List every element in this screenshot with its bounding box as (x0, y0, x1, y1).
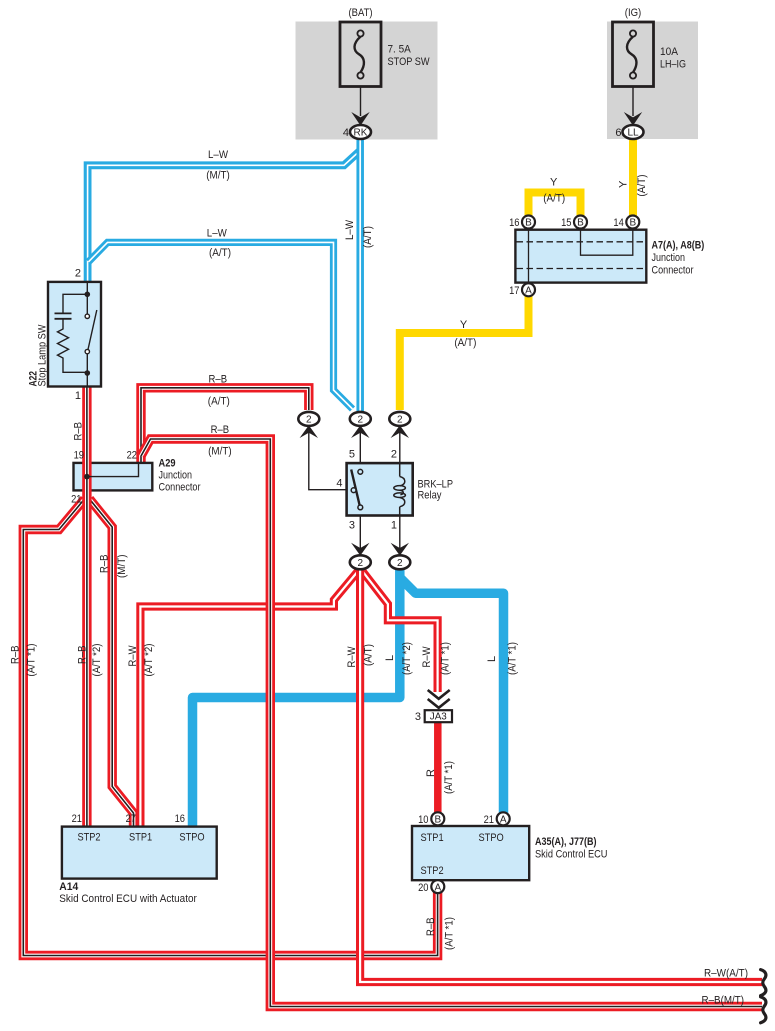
svg-text:JA3: JA3 (430, 712, 447, 723)
svg-text:A: A (434, 882, 441, 893)
continuation brace R-W(A/T) (761, 970, 766, 996)
svg-text:L–W: L–W (344, 219, 356, 240)
svg-text:3: 3 (349, 520, 355, 532)
arrow into middle top oval (351, 425, 369, 438)
svg-text:A29: A29 (159, 458, 176, 470)
svg-text:Connector: Connector (652, 265, 694, 277)
svg-text:2: 2 (358, 415, 364, 426)
svg-text:Relay: Relay (418, 490, 442, 502)
svg-text:2: 2 (397, 415, 403, 426)
svg-text:(A/T *1): (A/T *1) (443, 761, 455, 794)
svg-text:Skid Control ECU: Skid Control ECU (535, 849, 608, 861)
svg-text:STPO: STPO (179, 832, 205, 844)
skid control ECU A35(A) J77(B) (412, 826, 529, 880)
relay BRK-LP (347, 463, 413, 515)
svg-text:L: L (384, 655, 396, 661)
wire fuse F1 to connector RK (360, 87, 362, 117)
connector JA3 pin 3 (415, 710, 452, 723)
svg-text:R–W(A/T): R–W(A/T) (704, 968, 748, 980)
connector oval LL pin 6 (615, 125, 643, 139)
svg-text:R–B: R–B (209, 374, 228, 386)
svg-text:(A/T): (A/T) (362, 226, 374, 248)
svg-text:R–W: R–W (346, 646, 358, 668)
svg-text:STOP SW: STOP SW (388, 56, 431, 68)
svg-text:10A: 10A (660, 46, 679, 58)
svg-text:STP1: STP1 (421, 832, 444, 844)
svg-text:STP1: STP1 (129, 832, 152, 844)
wire R-W (A/T *2) from left bottom relay oval to A14 STP1 (140, 572, 357, 828)
svg-text:(A/T): (A/T) (636, 175, 648, 197)
arrow into bottom right oval (391, 543, 409, 556)
svg-text:1: 1 (75, 390, 81, 402)
svg-text:A: A (500, 815, 507, 826)
svg-text:L: L (486, 656, 498, 662)
wire Y from LL to A7 pin 14B (629, 138, 637, 216)
svg-text:A: A (525, 286, 532, 297)
svg-text:RK: RK (354, 128, 368, 139)
svg-text:R: R (425, 769, 437, 777)
wire Y from A7 pin 17A to relay connector oval (400, 288, 529, 410)
continuation brace R-B(M/T) (761, 997, 766, 1023)
A7 pin circle 16 B (509, 216, 535, 230)
A35 pin circle 10 B (418, 812, 444, 826)
oval 2 bottom left (350, 555, 371, 569)
A7 pin circle 17 A (509, 283, 535, 297)
svg-text:21: 21 (484, 814, 494, 826)
skid control ECU with actuator A14 (62, 827, 217, 879)
wire R-B (A/T *1) from A29 pin 21 to A35 STP2 (23, 499, 437, 956)
svg-text:5: 5 (349, 449, 355, 461)
svg-text:2: 2 (75, 268, 81, 280)
relay thin line pin 5 to middle oval (359, 432, 361, 469)
fuse F1 7.5A STOP SW (340, 22, 381, 87)
svg-text:Y: Y (460, 319, 468, 331)
svg-text:B: B (434, 815, 441, 826)
junction connector A29 box (74, 463, 153, 491)
svg-text:Stop Lamp SW: Stop Lamp SW (37, 324, 49, 387)
wire R-W (A/T *1) from left bottom relay oval to JA3 (363, 572, 438, 693)
svg-text:16: 16 (509, 217, 519, 229)
svg-text:(M/T): (M/T) (206, 170, 230, 182)
svg-text:(A/T *1): (A/T *1) (444, 917, 456, 950)
svg-text:(BAT): (BAT) (349, 7, 373, 19)
svg-text:2: 2 (306, 415, 312, 426)
relay thin line pin 3 down (359, 516, 361, 550)
svg-text:STP2: STP2 (77, 832, 100, 844)
svg-text:21: 21 (71, 494, 81, 506)
svg-text:(A/T): (A/T) (363, 644, 375, 666)
arrow into bottom left oval (351, 543, 369, 556)
arrow into right top oval (391, 425, 409, 438)
wire L-W (A/T) from A22 pin 2 to middle relay oval (89, 242, 353, 409)
svg-text:B: B (525, 218, 532, 229)
wire R-B (A/T) from A29 pin 22 to left relay oval (141, 388, 309, 464)
svg-text:R–W: R–W (421, 646, 433, 668)
svg-text:STPO: STPO (479, 832, 505, 844)
A7 pin circle 15 B (561, 216, 587, 230)
fuse F2 10A LH-IG (613, 22, 654, 87)
svg-text:R–B: R–B (425, 918, 437, 937)
svg-text:(M/T): (M/T) (208, 446, 232, 458)
svg-text:B: B (577, 218, 584, 229)
oval 2 bottom right (389, 555, 410, 569)
svg-text:Connector: Connector (159, 482, 201, 494)
svg-text:B: B (629, 218, 636, 229)
svg-text:R–B: R–B (10, 646, 22, 665)
svg-text:1: 1 (391, 520, 397, 532)
svg-text:3: 3 (415, 711, 421, 723)
svg-text:27: 27 (126, 813, 136, 825)
relay thin line pin 2 to right oval (399, 432, 401, 472)
svg-text:16: 16 (175, 813, 185, 825)
wire fuse F2 to connector LL (632, 87, 634, 117)
svg-text:6: 6 (615, 127, 621, 139)
svg-text:4: 4 (336, 478, 342, 490)
svg-text:22: 22 (127, 450, 137, 462)
svg-text:2: 2 (391, 449, 397, 461)
svg-text:R–B: R–B (73, 422, 85, 441)
shield chevrons above JA3 (428, 690, 450, 708)
svg-text:14: 14 (613, 217, 623, 229)
svg-text:Junction: Junction (159, 470, 193, 482)
svg-text:(A/T *2): (A/T *2) (91, 644, 103, 677)
svg-text:2: 2 (397, 558, 403, 569)
fuse block IG (gray background) (607, 22, 698, 140)
wire L-W from RK down to middle relay oval (356, 138, 364, 411)
A29 internal bus (84, 463, 138, 480)
svg-text:L–W: L–W (207, 228, 228, 240)
svg-text:17: 17 (509, 285, 519, 297)
svg-text:(A/T): (A/T) (543, 193, 565, 205)
svg-text:Junction: Junction (652, 252, 686, 264)
svg-text:A14: A14 (59, 881, 79, 893)
svg-text:21: 21 (72, 813, 82, 825)
wire R-B (M/T) from A29 pin 21 to A14 STP1 (90, 499, 134, 827)
arrow into LL (624, 112, 642, 126)
svg-text:2: 2 (358, 558, 364, 569)
svg-text:R–B(M/T): R–B(M/T) (702, 995, 745, 1007)
wire Y loop A7 pin 16B to 15B (529, 193, 581, 224)
fuse block BAT (gray background) (296, 22, 438, 140)
svg-text:A35(A), J77(B): A35(A), J77(B) (535, 836, 597, 848)
arrow into RK (351, 112, 369, 126)
wire R-B from A22 pin 1 through A29 to A14 STP2 (82, 385, 91, 827)
stop lamp switch A22 (48, 282, 101, 387)
arrow into left top oval (300, 425, 318, 438)
svg-text:4: 4 (343, 127, 349, 139)
svg-text:20: 20 (418, 882, 428, 894)
oval 2 top middle (350, 412, 371, 426)
oval 2 top right (389, 412, 410, 426)
svg-text:19: 19 (74, 450, 84, 462)
relay thin line pin 4 to left oval (309, 432, 347, 490)
svg-text:A7(A), A8(B): A7(A), A8(B) (652, 240, 705, 252)
svg-text:(A/T *2): (A/T *2) (401, 642, 413, 675)
connector oval RK pin 4 (343, 125, 371, 139)
svg-text:LL: LL (627, 128, 639, 139)
svg-text:STP2: STP2 (421, 865, 444, 877)
svg-text:(IG): (IG) (625, 7, 642, 19)
svg-text:(A/T *2): (A/T *2) (143, 644, 155, 677)
svg-text:Y: Y (550, 177, 558, 189)
svg-text:R–W: R–W (127, 645, 139, 667)
svg-text:(A/T): (A/T) (208, 396, 230, 408)
svg-text:15: 15 (561, 217, 571, 229)
wire R-W (A/T) from left bottom relay oval to bottom right (360, 567, 762, 982)
svg-text:R–B: R–B (77, 646, 89, 665)
svg-text:(A/T): (A/T) (209, 247, 231, 259)
A7 pin circle 14 B (613, 216, 639, 230)
A35 pin circle 20 A (418, 880, 444, 894)
wire L (A/T *1) branch to A35 STPO (400, 578, 504, 814)
svg-text:R–B: R–B (211, 424, 230, 436)
wire L (A/T *2) from right bottom relay oval to A14 STPO (193, 567, 400, 827)
svg-text:7. 5A: 7. 5A (388, 44, 412, 56)
svg-text:(A/T): (A/T) (454, 337, 476, 349)
relay thin line pin 1 down (399, 516, 401, 550)
svg-text:L–W: L–W (208, 149, 229, 161)
svg-text:(M/T): (M/T) (116, 555, 128, 579)
svg-text:Y: Y (618, 180, 630, 188)
wire L-W (M/T) from A22 pin 2 to RK drop (88, 151, 360, 283)
svg-text:(A/T *1): (A/T *1) (440, 642, 452, 675)
svg-text:R–B: R–B (99, 555, 111, 574)
svg-text:10: 10 (418, 814, 428, 826)
svg-text:(A/T *1): (A/T *1) (507, 642, 519, 675)
svg-text:LH–IG: LH–IG (660, 58, 686, 70)
wire R (A/T *1) from JA3 to A35 STP1 (434, 721, 442, 813)
junction connector A7(A) A8(B) (515, 230, 646, 283)
A35 pin circle 21 A (484, 812, 510, 826)
svg-text:Skid Control ECU with Actuator: Skid Control ECU with Actuator (59, 893, 197, 905)
svg-text:(A/T *1): (A/T *1) (26, 644, 38, 677)
wire R-B (M/T) from A29 pin 22 to bottom right (141, 439, 762, 1007)
oval 2 top left (298, 412, 319, 426)
